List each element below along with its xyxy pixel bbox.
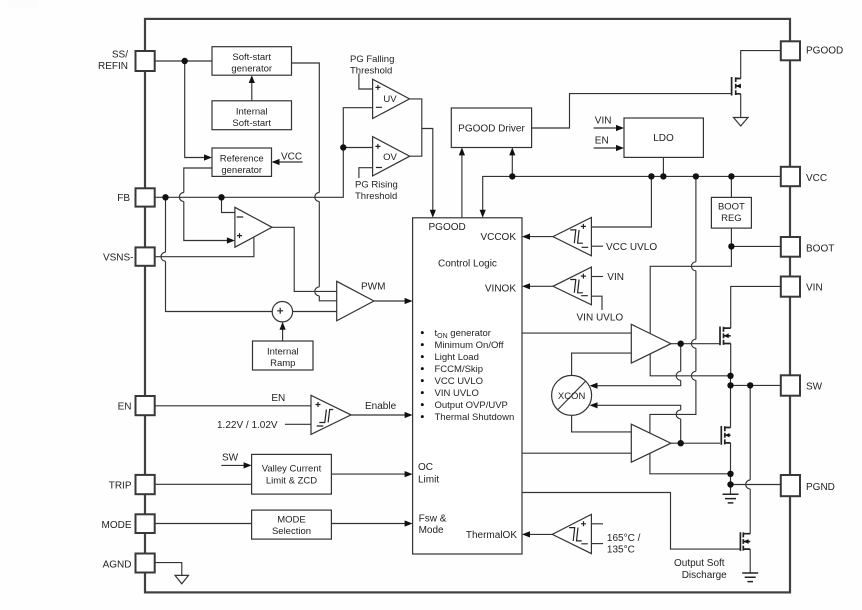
- node SW upper junction: [727, 373, 733, 379]
- wire EN pin to enable comparator + input: [155, 405, 311, 407]
- svg-text:PWM: PWM: [361, 281, 385, 292]
- wire high-side gate node down to XCON upper input (hops SW rail): [597, 344, 681, 386]
- wire thermal comparator - input stub: [591, 543, 603, 545]
- comparator VIN UVLO (schmitt, left facing): [553, 267, 591, 305]
- wire SS/REFIN branch to Reference generator input: [185, 61, 206, 158]
- svg-text:XCON: XCON: [558, 391, 586, 402]
- wire FB branch down to summing junction (hops VSNS- line): [161, 197, 272, 311]
- pin SW: [781, 375, 800, 395]
- wire SW node to SW pin: [731, 384, 781, 386]
- pin BOOT: [781, 237, 800, 257]
- block PGOOD Driver: [451, 108, 531, 148]
- comparator thermal shutdown (schmitt, left facing): [552, 514, 591, 553]
- wire low-side gate node up to XCON lower input (hops driver rail): [597, 405, 681, 443]
- svg-text:MODE: MODE: [102, 520, 132, 531]
- summing junction: [272, 302, 292, 322]
- pin FB: [136, 188, 155, 206]
- svg-text:BOOT: BOOT: [718, 202, 745, 213]
- node VCC rail junction to driver rail: [693, 173, 699, 179]
- svg-text:Reference: Reference: [220, 154, 264, 165]
- svg-text:VIN UVLO: VIN UVLO: [577, 313, 624, 324]
- wire PGOOD FET drain to PGOOD pin: [741, 51, 781, 79]
- block Soft-start generator: [212, 47, 292, 75]
- wire TRIP pin to Valley Current Limit: [155, 483, 252, 485]
- node SW discharge branch: [747, 382, 753, 388]
- block Internal Ramp: [253, 341, 314, 370]
- svg-text:Limit: Limit: [418, 475, 439, 486]
- wire low-side FET source to power ground: [730, 443, 732, 494]
- wire VIN input stub to LDO: [594, 127, 618, 129]
- arrowhead EN into LDO: [616, 145, 624, 151]
- pin TRIP: [136, 475, 155, 494]
- wire Control Logic to low-side gate driver input: [522, 452, 631, 454]
- outer IC boundary border: [145, 19, 790, 593]
- pin VIN: [781, 277, 800, 297]
- comparator PWM: [337, 281, 374, 321]
- svg-text:Internal: Internal: [267, 347, 299, 358]
- wire XCON to high-side driver lower input: [572, 353, 632, 375]
- node FB junction 2: [218, 194, 224, 200]
- wire VSNS- to error amp feedback: [155, 237, 254, 257]
- block Internal Soft-start: [212, 101, 292, 130]
- svg-text:OV: OV: [383, 152, 397, 163]
- svg-text:OC: OC: [418, 462, 433, 473]
- pin PGOOD: [781, 41, 800, 60]
- svg-text:Threshold: Threshold: [355, 191, 397, 202]
- svg-text:BOOT: BOOT: [806, 243, 834, 254]
- svg-text:Selection: Selection: [272, 526, 311, 537]
- block Valley Current Limit & ZCD: [252, 454, 332, 494]
- wire PGOOD block up to PGOOD Driver (left): [461, 155, 463, 218]
- wire FB net horizontal to UV/OV comparators: [155, 108, 373, 198]
- wire PGND node to PGND pin: [731, 484, 781, 486]
- wire VCC rail down to low-side driver rail (hops BOOT, gate and SW lines): [650, 176, 731, 473]
- wire LDO output down to VCC rail: [662, 157, 664, 176]
- arrowhead VIN into LDO: [616, 125, 624, 131]
- wire PGOOD FET source to signal ground: [740, 94, 742, 118]
- svg-text:VIN: VIN: [607, 272, 624, 283]
- svg-text:ThermalOK: ThermalOK: [466, 530, 517, 541]
- node BOOT junction: [728, 243, 734, 249]
- wire XCON to low-side driver upper input: [572, 416, 632, 432]
- arrowhead PWM into Control Logic: [405, 298, 413, 304]
- label bullet VCC UVLO: [421, 379, 424, 382]
- svg-text:Output Soft: Output Soft: [674, 558, 725, 569]
- svg-text:LDO: LDO: [653, 133, 674, 144]
- svg-text:SW: SW: [806, 381, 823, 392]
- label bullet Light Load: [421, 355, 424, 358]
- svg-text:1.22V / 1.02V: 1.22V / 1.02V: [217, 420, 278, 431]
- arrowhead into Soft-start generator: [249, 75, 255, 83]
- ground power (below low-side FET): [723, 494, 739, 503]
- svg-text:TRIP: TRIP: [109, 481, 132, 492]
- svg-text:Thermal Shutdown: Thermal Shutdown: [435, 412, 515, 423]
- arrowhead VCCOK into Control Logic: [522, 234, 530, 240]
- wire EN input stub to LDO: [594, 147, 618, 149]
- arrowhead OC into Control Logic: [405, 471, 413, 477]
- comparator VCC UVLO (schmitt, left facing): [553, 218, 591, 256]
- node VCC rail junction to VCC UVLO: [648, 173, 654, 179]
- svg-text:Enable: Enable: [365, 401, 397, 412]
- svg-text:EN: EN: [595, 136, 609, 147]
- pin MODE: [136, 514, 155, 533]
- arrowhead VCC up to driver right: [509, 147, 515, 155]
- wire Soft-start generator output down to PWM input (hops FB and error-amp lines): [292, 63, 337, 301]
- wire SW branch down to discharge FET drain (hops PGND line): [746, 385, 750, 533]
- wire low-side driver output to low-side FET gate: [671, 442, 720, 444]
- wire thermal comparator + input stub: [591, 523, 603, 525]
- svg-text:Minimum On/Off: Minimum On/Off: [435, 340, 504, 351]
- arrowhead PGOOD up to driver left: [459, 147, 465, 155]
- svg-text:VCC: VCC: [806, 173, 827, 184]
- wire VCC UVLO output (VCCOK) to Control Logic: [529, 236, 553, 238]
- label bullet Output OVP/UVP: [421, 403, 424, 406]
- block Control Logic: [413, 218, 522, 554]
- svg-text:Valley Current: Valley Current: [262, 464, 322, 475]
- node SW pin junction: [727, 382, 733, 388]
- wire SW node down to low-side FET drain: [730, 385, 732, 427]
- ground analog AGND: [175, 575, 189, 583]
- arrowhead into XCON upper input: [590, 383, 598, 389]
- wire AGND pin to analog ground: [155, 563, 182, 576]
- wire discharge FET source to earth ground: [749, 549, 751, 573]
- wire VIN UVLO reference to VIN comparator - input: [591, 296, 602, 310]
- arrowhead VCC into Reference generator: [272, 159, 280, 165]
- wire 1.22V/1.02V reference to enable comparator - input: [285, 423, 311, 425]
- wire VCC rail to BOOT REG: [730, 176, 732, 197]
- svg-text:Soft-start: Soft-start: [232, 52, 271, 63]
- label bullet VIN UVLO: [421, 391, 424, 394]
- comparator enable (schmitt): [311, 395, 351, 434]
- svg-text:VCC: VCC: [281, 152, 302, 163]
- svg-text:VINOK: VINOK: [485, 284, 516, 295]
- block BOOT REG: [711, 197, 751, 228]
- wire enable comparator output to Control Logic: [351, 414, 406, 416]
- pin VSNS-: [136, 247, 155, 265]
- arrowhead ThermalOK into Control Logic: [522, 531, 530, 537]
- comparator OV: [373, 137, 410, 176]
- transistor high-side power FET: [720, 327, 731, 346]
- wire PG Rising Threshold to OV - input: [359, 168, 373, 178]
- wire VIN comparator + input stub: [591, 276, 603, 278]
- svg-text:Discharge: Discharge: [682, 570, 727, 581]
- svg-text:Ramp: Ramp: [270, 358, 295, 369]
- wire high-side driver output to high-side FET gate: [671, 343, 720, 345]
- wire MODE Selection output to Fsw &amp; Mode: [331, 523, 405, 525]
- wire BOOT REG to BOOT pin and high-side driver boot rail: [650, 228, 781, 376]
- node PGND pin junction: [727, 481, 733, 487]
- svg-text:PGOOD: PGOOD: [429, 222, 466, 233]
- comparator UV: [373, 79, 410, 118]
- svg-text:FCCM/Skip: FCCM/Skip: [435, 364, 484, 375]
- pin AGND: [136, 554, 155, 573]
- wire high-side FET source to SW node: [730, 344, 732, 386]
- label bullet Minimum On/Off: [421, 343, 424, 346]
- wire VCC reference stub into Reference generator: [278, 161, 302, 163]
- label bullet list tON generator: [421, 331, 424, 334]
- wire PGOOD Driver output to PGOOD pull-down FET gate: [532, 94, 732, 128]
- wire thermal comparator output (ThermalOK) to Control Logic: [529, 533, 552, 535]
- svg-text:PGOOD Driver: PGOOD Driver: [458, 124, 525, 135]
- svg-text:135°C: 135°C: [607, 544, 635, 555]
- arrowhead SW into Valley Current Limit: [244, 462, 252, 468]
- pin PGND: [781, 475, 800, 496]
- wire error amp output to PWM comparator upper input: [272, 227, 337, 291]
- label bullet FCCM/Skip: [421, 367, 424, 370]
- wire summing junction to PWM comparator lower input: [293, 311, 337, 313]
- svg-text:Output OVP/UVP: Output OVP/UVP: [435, 400, 508, 411]
- svg-text:EN: EN: [118, 401, 132, 412]
- wire SW into Valley Current Limit: [221, 464, 244, 466]
- wire VCC rail branch up to PGOOD Driver (right): [511, 155, 513, 176]
- svg-text:REG: REG: [721, 213, 742, 224]
- pin SS/REFIN: [136, 51, 155, 71]
- node SS/REFIN branch junction: [182, 58, 188, 64]
- svg-text:MODE: MODE: [277, 515, 306, 526]
- wire PWM output to Control Logic: [374, 300, 406, 302]
- svg-text:PG Falling: PG Falling: [350, 54, 394, 65]
- pin VCC: [781, 167, 800, 186]
- arrowhead into summing junction: [280, 322, 286, 330]
- svg-text:165°C /: 165°C /: [607, 533, 641, 544]
- svg-text:VIN: VIN: [806, 282, 823, 293]
- arrowhead VINOK into Control Logic: [522, 283, 530, 289]
- gate driver high-side U-HS: [631, 324, 671, 363]
- wire Control Logic to high-side gate driver input: [522, 332, 631, 334]
- svg-text:SW: SW: [222, 453, 239, 464]
- ground signal (below PGOOD FET): [734, 118, 749, 127]
- svg-text:EN: EN: [271, 393, 285, 404]
- op-amp error amplifier: [235, 207, 272, 247]
- node VCC rail junction to BOOT REG: [728, 173, 734, 179]
- svg-text:VCC UVLO: VCC UVLO: [606, 242, 657, 253]
- svg-text:UV: UV: [383, 94, 397, 105]
- pin EN: [136, 396, 155, 415]
- svg-text:Fsw &: Fsw &: [419, 514, 447, 525]
- wire UV/OV outputs joined down to PGOOD block: [410, 99, 433, 211]
- node VCC rail junction to PGOOD driver: [509, 173, 515, 179]
- wire FB branch to error amp - input: [222, 197, 235, 212]
- wire Valley Current Limit output to OC Limit: [331, 473, 405, 475]
- XCON cross-conduction block: [552, 375, 592, 415]
- arrowhead VCC rail into Control Logic top: [480, 210, 486, 218]
- arrowhead into XCON lower input: [590, 402, 598, 408]
- wire Control Logic to output soft discharge FET gate: [522, 493, 740, 550]
- node VCC rail junction at LDO output: [660, 173, 666, 179]
- svg-text:VIN UVLO: VIN UVLO: [435, 388, 479, 399]
- ground power (below discharge FET): [742, 573, 758, 582]
- svg-text:VSNS-: VSNS-: [103, 253, 134, 264]
- svg-text:Threshold: Threshold: [350, 66, 392, 77]
- svg-text:VCC UVLO: VCC UVLO: [435, 376, 484, 387]
- svg-text:REFIN: REFIN: [98, 61, 128, 72]
- wire VIN comparator output (VINOK) to Control Logic: [529, 285, 553, 287]
- wire VCC rail: [483, 176, 781, 210]
- arrowhead UV/OV into PGOOD block: [430, 210, 436, 218]
- node low-side gate: [678, 440, 684, 446]
- svg-text:Mode: Mode: [419, 525, 444, 536]
- wire SS/REFIN to Soft-start generator: [155, 60, 212, 62]
- label bullet Thermal Shutdown: [421, 415, 424, 418]
- node high-side gate: [678, 341, 684, 347]
- wire VIN pin to high-side FET drain: [731, 286, 781, 328]
- arrowhead into Reference generator input: [204, 154, 212, 160]
- wire VCC rail to VCC UVLO + input: [591, 176, 651, 227]
- svg-text:generator: generator: [231, 64, 272, 75]
- block LDO: [624, 118, 703, 157]
- transistor low-side power FET: [721, 426, 730, 445]
- arrowhead into error amp + input: [227, 237, 235, 243]
- transistor PGOOD pull-down FET: [732, 77, 741, 96]
- block Reference generator: [212, 148, 272, 176]
- svg-text:generator: generator: [221, 165, 262, 176]
- svg-text:Soft-start: Soft-start: [232, 118, 271, 129]
- transistor output soft discharge FET: [740, 532, 750, 551]
- wire MODE pin to MODE Selection: [155, 523, 252, 525]
- wire PG Falling Threshold to UV + input: [359, 74, 373, 90]
- svg-text:PG Rising: PG Rising: [355, 180, 398, 191]
- arrowhead Enable into Control Logic: [405, 412, 413, 418]
- svg-text:VIN: VIN: [595, 116, 612, 127]
- block MODE Selection: [252, 510, 332, 539]
- gate driver low-side U-LS: [631, 424, 671, 462]
- svg-text:Light Load: Light Load: [435, 352, 479, 363]
- wire Internal Soft-start up to Soft-start generator: [251, 82, 253, 101]
- wire Internal Ramp up to summing junction: [282, 329, 284, 341]
- svg-text:PGND: PGND: [806, 482, 835, 493]
- wire VCC UVLO - input stub: [591, 245, 603, 247]
- svg-text:Control Logic: Control Logic: [438, 259, 497, 270]
- arrowhead Fsw into Control Logic: [405, 520, 413, 526]
- svg-text:AGND: AGND: [103, 559, 132, 570]
- svg-text:Limit & ZCD: Limit & ZCD: [266, 476, 317, 487]
- node OV + input junction: [340, 144, 346, 150]
- node PGND rail junction: [727, 471, 733, 477]
- svg-text:SS/: SS/: [112, 49, 128, 60]
- svg-text:Internal: Internal: [236, 107, 268, 118]
- svg-text:FB: FB: [117, 193, 130, 204]
- svg-text:PGOOD: PGOOD: [806, 46, 843, 57]
- wire Reference generator output to error amp + input (hops FB line): [179, 168, 228, 241]
- node FB junction 1: [162, 194, 168, 200]
- svg-text:VCCOK: VCCOK: [480, 232, 516, 243]
